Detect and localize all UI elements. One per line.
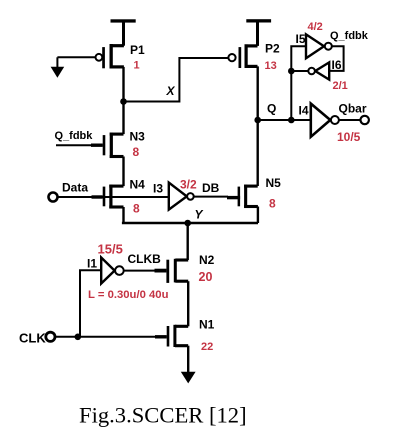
- wire N2 source to N1 drain: [187, 281, 189, 326]
- inverter I4: [311, 104, 339, 137]
- svg-text:L = 0.30u/0 40u: L = 0.30u/0 40u: [88, 289, 169, 301]
- svg-text:Data: Data: [62, 181, 88, 195]
- svg-text:X: X: [166, 84, 176, 98]
- terminal Qbar: [361, 116, 369, 124]
- svg-text:3/2: 3/2: [180, 178, 197, 192]
- nmos transistor N1: [167, 325, 189, 347]
- svg-text:10/5: 10/5: [337, 130, 361, 144]
- svg-text:13: 13: [265, 60, 277, 72]
- wire I5 output loop to I6 input: [330, 46, 344, 71]
- wire CLKB: I1 output to N2 gate: [124, 270, 156, 272]
- inverter I3: [169, 183, 194, 210]
- svg-text:20: 20: [199, 270, 213, 284]
- svg-text:15/5: 15/5: [98, 242, 123, 257]
- svg-text:2/1: 2/1: [333, 80, 348, 92]
- junction dot feedback node: [288, 68, 295, 75]
- svg-text:N5: N5: [266, 176, 282, 190]
- terminal Data: [49, 193, 58, 202]
- wire I4 output to Qbar terminal: [339, 119, 361, 121]
- pmos transistor P1: [96, 44, 124, 68]
- svg-text:Q_fdbk: Q_fdbk: [330, 30, 369, 42]
- wire node Y down to N2 drain: [186, 223, 188, 260]
- svg-text:Fig.3.SCCER [12]: Fig.3.SCCER [12]: [79, 402, 247, 427]
- power rail VDD bar above P2: [246, 19, 271, 46]
- svg-text:I5: I5: [296, 32, 306, 46]
- svg-text:N2: N2: [199, 253, 215, 267]
- ground symbol left (arrow): [51, 57, 65, 78]
- svg-text:Q: Q: [267, 102, 276, 116]
- wire P1 gate to left ground: [57, 56, 95, 58]
- nmos transistor N3: [103, 133, 124, 158]
- nmos transistor N4: [103, 185, 124, 209]
- junction dot CLK / I1 branch: [75, 334, 82, 341]
- wire Q up to feedback inverters: [291, 46, 306, 120]
- svg-text:I4: I4: [299, 104, 309, 118]
- nmos transistor N5: [238, 185, 258, 208]
- node Q junction dot: [254, 117, 261, 124]
- inverter I6 (left pointing): [308, 62, 329, 79]
- svg-text:8: 8: [269, 197, 276, 211]
- svg-text:N3: N3: [130, 130, 146, 144]
- svg-text:I6: I6: [332, 58, 342, 72]
- svg-text:22: 22: [201, 341, 213, 353]
- wire I1 input loop from CLK: [80, 270, 101, 337]
- wire node X to P2 gate: [124, 58, 229, 102]
- inverter I5: [306, 34, 332, 58]
- svg-text:N1: N1: [199, 318, 215, 332]
- power rail VDD bar above P1: [111, 19, 136, 45]
- svg-text:CLK: CLK: [19, 331, 46, 346]
- nmos transistor N2: [166, 259, 188, 283]
- svg-text:Y: Y: [195, 208, 204, 222]
- wire N3 source to N4 drain: [122, 157, 124, 187]
- wire P2 drain down through node Q to N5: [257, 66, 259, 186]
- wire I6 output to feedback node: [291, 70, 308, 72]
- pmos transistor P2: [228, 44, 257, 68]
- svg-text:DB: DB: [202, 181, 220, 195]
- node Q feedback junction dot: [288, 117, 295, 124]
- wire node Q to I4 input: [258, 119, 311, 121]
- wire DB: I3 output to N5 gate: [194, 196, 228, 198]
- svg-text:N4: N4: [130, 178, 146, 192]
- wire N1 source down to ground: [187, 346, 189, 373]
- wire Data to N4 gate and I3 input: [57, 196, 169, 198]
- wire P1 drain down to node X: [122, 67, 124, 102]
- svg-text:Qbar: Qbar: [339, 102, 367, 116]
- svg-text:1: 1: [134, 60, 140, 72]
- wire N5 source down to node Y: [257, 207, 259, 224]
- inverter I1: [101, 258, 124, 284]
- terminal CLK: [46, 332, 55, 341]
- wire Q_fdbk to N3 gate: [56, 144, 103, 146]
- svg-text:Q_fdbk: Q_fdbk: [55, 130, 94, 142]
- svg-text:CLKB: CLKB: [128, 252, 162, 266]
- wire N4 source down to node Y: [122, 207, 124, 223]
- node Y junction dot: [184, 220, 191, 227]
- svg-text:I3: I3: [153, 182, 163, 196]
- svg-text:P1: P1: [130, 43, 145, 57]
- ground symbol bottom (arrow): [181, 372, 196, 384]
- svg-text:P2: P2: [265, 42, 280, 56]
- svg-text:8: 8: [133, 202, 140, 216]
- node X junction dot: [120, 98, 127, 105]
- wire CLK to N1 gate: [55, 336, 167, 338]
- wire node Y horizontal: [122, 222, 258, 224]
- svg-text:8: 8: [133, 145, 140, 159]
- svg-text:I1: I1: [87, 257, 97, 271]
- wire X node down to N3 drain: [122, 102, 124, 135]
- svg-text:4/2: 4/2: [308, 21, 323, 33]
